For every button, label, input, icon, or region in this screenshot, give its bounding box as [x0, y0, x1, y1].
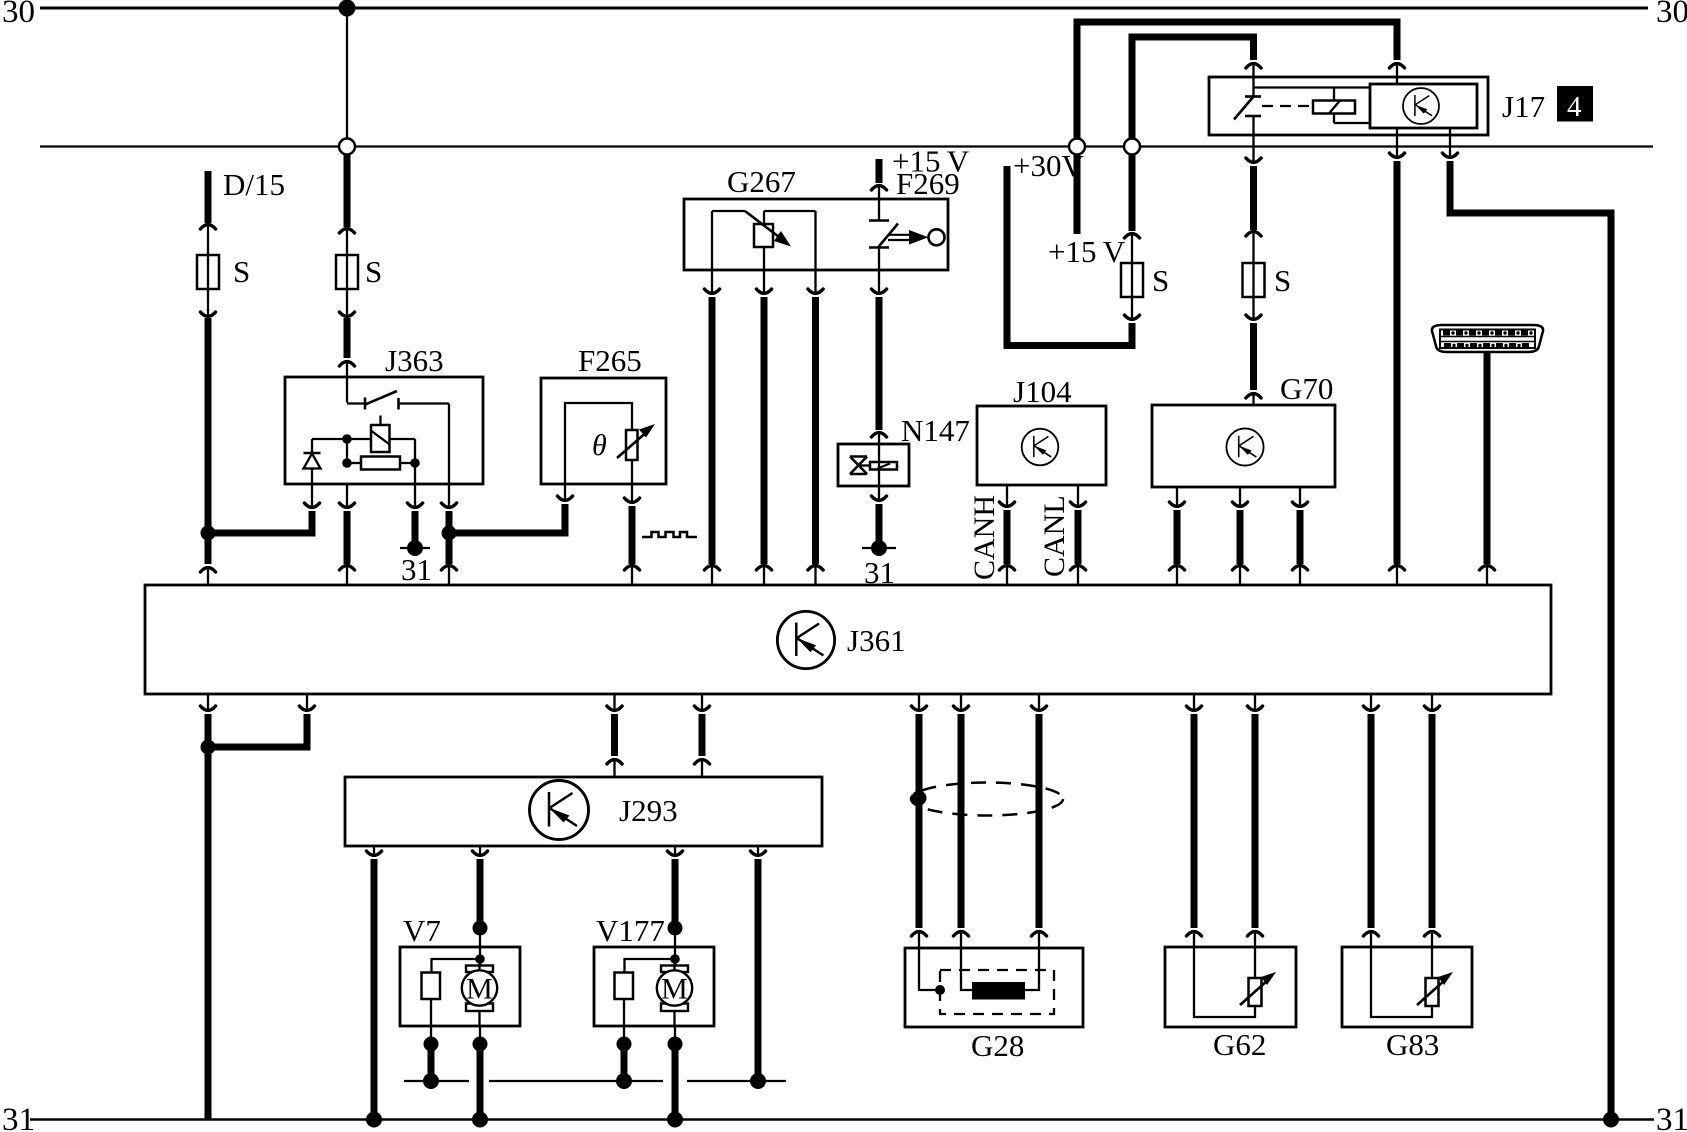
- svg-text:S: S: [365, 254, 382, 289]
- svg-text:V7: V7: [403, 913, 441, 948]
- motor V7: [400, 913, 520, 1026]
- ground 31 below J363: [400, 540, 432, 587]
- J363 switch contact: [347, 377, 449, 484]
- J363 pin 4 wire down: [441, 484, 456, 585]
- V177 motor symbol: [657, 964, 692, 1026]
- svg-text:S: S: [233, 254, 250, 289]
- svg-text:31: 31: [401, 552, 432, 587]
- svg-text:G62: G62: [1213, 1027, 1266, 1062]
- wire J361 to G83 pin 1: [1363, 694, 1378, 947]
- J363 actuating link: [379, 416, 381, 426]
- svg-text:N147: N147: [901, 413, 970, 448]
- fuse S in D/15 feed: [197, 223, 250, 318]
- wire D/15 fuse down to J361: [200, 318, 215, 585]
- sender G267: [684, 164, 948, 270]
- G70 pin 3 wire to J361: [1292, 487, 1307, 585]
- wire J361 to G62 pin 2: [1247, 694, 1262, 947]
- wire J361 to G62 pin 1: [1186, 694, 1201, 947]
- wire branch to J363 pin 1: [208, 484, 320, 533]
- data link connector: [1432, 325, 1543, 352]
- G62 internal resistor: [1194, 947, 1276, 1017]
- J363 pin 3 wire to ground 31: [407, 484, 422, 542]
- ground 31 below N147: [862, 540, 896, 590]
- svg-text:G70: G70: [1280, 371, 1333, 406]
- svg-text:G267: G267: [727, 164, 796, 199]
- wire fuse run to J17 switch (lower run): [1132, 37, 1261, 139]
- svg-text:J17: J17: [1502, 89, 1545, 124]
- V177 series resistor: [615, 959, 676, 1026]
- wire J361 to G28 pin 1: [911, 694, 926, 948]
- wire F269 to N147: [871, 270, 886, 445]
- svg-text:F269: F269: [896, 166, 960, 201]
- wire J293 pin 2 to V7: [472, 846, 487, 966]
- svg-text:S: S: [1152, 263, 1169, 298]
- node 30 rail top: [2, 0, 1687, 30]
- wire J361 to G83 pin 2: [1424, 694, 1439, 947]
- fuse S in G70 feed: [1243, 263, 1292, 321]
- wire 30 rail down to second rail: [346, 8, 348, 138]
- wire J361 to 31 rail (left): [200, 694, 215, 1120]
- svg-text:S: S: [1274, 263, 1291, 298]
- svg-text:J361: J361: [847, 623, 906, 658]
- wire J361 pin 2 branch to left ground wire: [208, 694, 315, 747]
- svg-text:G83: G83: [1386, 1027, 1439, 1062]
- N147 internal symbol: [850, 444, 897, 486]
- svg-text:F265: F265: [578, 343, 642, 378]
- G83 internal resistor: [1371, 947, 1453, 1017]
- svg-text:4: 4: [1567, 91, 1582, 123]
- svg-text:θ: θ: [592, 429, 607, 462]
- second supply rail: [40, 145, 1653, 147]
- wire J17 output to J361: [1389, 128, 1404, 585]
- wire CANH J104 to J361: [968, 485, 1015, 585]
- V7 motor wire to 31 rail: [472, 1026, 488, 1128]
- N147 wire to ground 31: [871, 486, 886, 542]
- wire J293 pin 3 to V177: [667, 846, 682, 966]
- G267 pin 1 wire to J361: [704, 270, 719, 586]
- wire J17 switch to fuse and G70: [1246, 135, 1261, 263]
- node 31 rail bottom: [2, 1102, 1687, 1132]
- control unit J361: [145, 585, 1551, 694]
- G267 pin 3 wire to J361: [808, 270, 823, 586]
- wire J293 pin 4 to ground bar: [750, 846, 766, 1089]
- V177 internal junction: [670, 954, 680, 964]
- J17 switch contact: [1234, 77, 1261, 135]
- G267 internal sensor potentiometer: [712, 211, 816, 270]
- control unit J104: [977, 374, 1106, 485]
- V7 internal junction: [475, 954, 485, 964]
- wire J17 output right to 31 rail: [1442, 128, 1611, 1120]
- svg-text:J104: J104: [1013, 374, 1072, 409]
- svg-text:CANH: CANH: [968, 495, 1001, 580]
- terminal +30V L-wire to fuse: [1007, 148, 1132, 346]
- J363 pin 2 wire to J361: [339, 484, 354, 585]
- terminal +15V above F269: [871, 144, 969, 202]
- junction on 30 rail: [339, 0, 356, 17]
- ground bar under V7/V177: [404, 1080, 786, 1082]
- svg-text:+30V: +30V: [1013, 148, 1084, 183]
- terminal +15V (left of J104): [1048, 139, 1126, 270]
- junction D/15 wire to J363 branch: [201, 526, 216, 541]
- svg-text:30: 30: [1656, 0, 1687, 30]
- V7 resistor wire to ground bar: [423, 1026, 439, 1089]
- svg-text:31: 31: [2, 1102, 35, 1132]
- J17 current-track box 4: [1557, 86, 1593, 123]
- wire J361 to J293 (pin a): [607, 694, 622, 777]
- G267 pin 2 wire to J361: [756, 270, 771, 586]
- wire second rail to fuse (J363 feed): [339, 155, 354, 255]
- V7 motor symbol: [462, 964, 497, 1026]
- wire J293 pin 1 to 31 rail: [366, 846, 382, 1128]
- switch F269 inside G267: [869, 199, 898, 270]
- terminal D/15: [200, 167, 285, 229]
- svg-text:+15 V: +15 V: [1048, 234, 1126, 269]
- shield ellipse: [911, 783, 1063, 816]
- sensor F265: [541, 343, 666, 484]
- valve N147: [838, 413, 970, 486]
- svg-text:CANL: CANL: [1038, 495, 1071, 577]
- connector circle on second rail: [339, 139, 355, 155]
- svg-text:30: 30: [2, 0, 35, 30]
- svg-text:J293: J293: [619, 793, 678, 828]
- svg-text:J363: J363: [385, 343, 444, 378]
- J363 resistor: [347, 457, 415, 470]
- junction J363 pin4 / F265 branch: [442, 526, 457, 541]
- J363 relay coil: [371, 425, 390, 452]
- fuse S (+30V branch): [1121, 263, 1169, 349]
- F265 internal circuit: [565, 403, 655, 484]
- svg-text:31: 31: [1656, 1102, 1687, 1132]
- G70 pin 2 wire to J361: [1232, 487, 1247, 585]
- sender G70: [1152, 371, 1335, 487]
- square-wave signal mark: [642, 532, 697, 537]
- J17 internal link wiring: [1254, 88, 1371, 107]
- svg-text:V177: V177: [596, 913, 665, 948]
- svg-text:G28: G28: [971, 1028, 1024, 1063]
- wire J361 to G28 pin 3: [1031, 694, 1046, 948]
- F269 manual actuation arrow: [888, 229, 945, 245]
- G28 internal shield box: [919, 948, 1054, 1014]
- wire J361 to G28 pin 2: [953, 694, 968, 948]
- V7 series resistor: [422, 959, 481, 1026]
- wire second rail to fuse (+30V branch): [1124, 139, 1140, 264]
- wire fuse to G70: [1246, 323, 1261, 405]
- sender G62: [1165, 947, 1296, 1062]
- junction left ground wire: [201, 740, 216, 755]
- sender G83: [1342, 947, 1472, 1062]
- G70 pin 1 wire to J361: [1169, 487, 1184, 585]
- J17 relay coil: [1313, 101, 1370, 124]
- wire CANL J104 to J361: [1038, 485, 1086, 585]
- control unit J293: [345, 777, 822, 846]
- F265 pin 2 wire to J361: [624, 484, 639, 585]
- J363 diode: [304, 439, 321, 484]
- G28 sender resistor: [961, 948, 1039, 1000]
- wire data link connector to J361: [1479, 352, 1494, 585]
- junction on 31 rail right: [1603, 1112, 1619, 1128]
- wire branch to F265 pin 1: [449, 484, 573, 533]
- wire 30 feed run to J17 pin (upper run): [1077, 22, 1405, 139]
- junction shield wire: [912, 791, 927, 806]
- svg-text:D/15: D/15: [223, 167, 285, 202]
- sender G28: [905, 948, 1083, 1063]
- J17 output stage K symbol: [1403, 88, 1439, 124]
- junction dots inside J363: [342, 434, 352, 444]
- fuse S in J363 feed: [336, 254, 382, 318]
- wire J361 to J293 (pin b): [694, 694, 709, 777]
- J363 internal wiring: [312, 439, 415, 484]
- wire fuse to J363 top: [339, 318, 354, 377]
- V177 motor wire to 31 rail: [667, 1026, 683, 1128]
- relay J363: [285, 343, 483, 484]
- V177 resistor wire to ground bar: [616, 1026, 632, 1089]
- motor V177: [594, 913, 714, 1026]
- relay J17: [1209, 77, 1545, 135]
